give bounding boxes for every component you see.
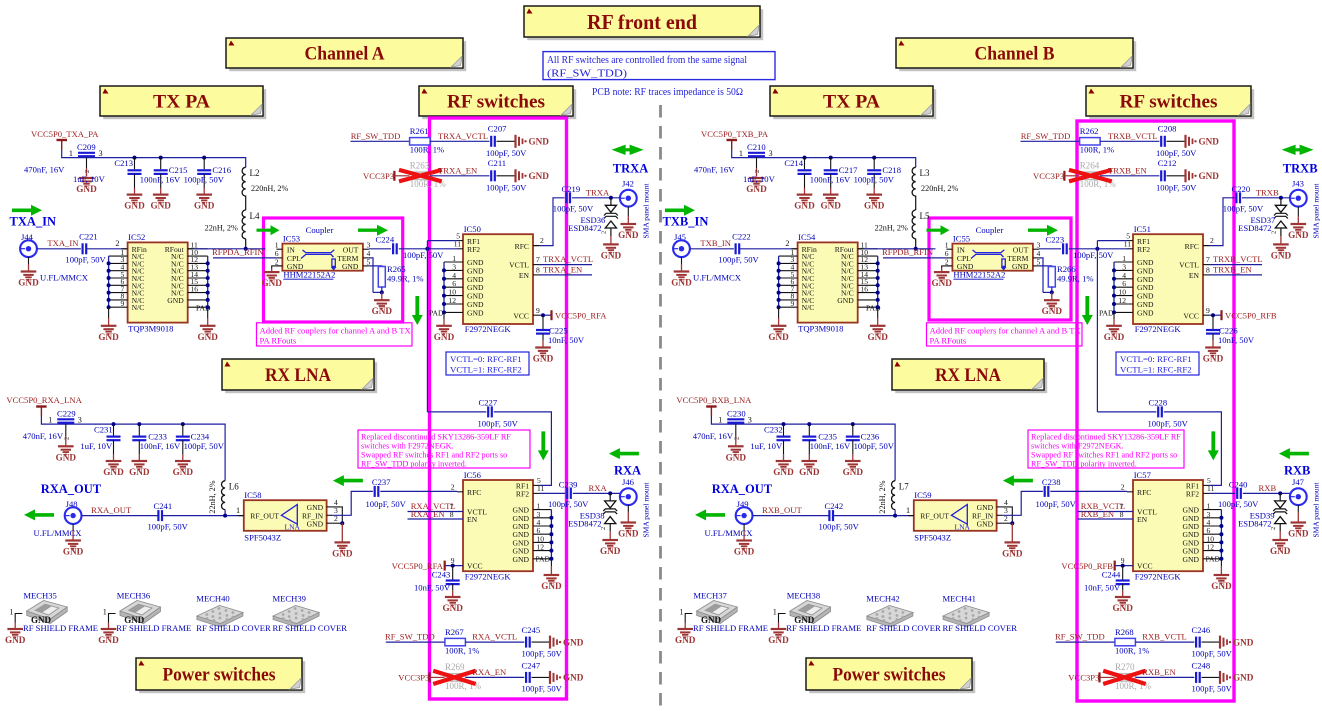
svg-text:12: 12 xyxy=(537,543,545,552)
mech shield frame MECH35 xyxy=(9,591,98,633)
svg-text:IC54: IC54 xyxy=(798,232,816,242)
dashed channel divider xyxy=(659,105,662,711)
inductor L4 xyxy=(205,210,260,239)
wire xyxy=(86,239,127,249)
svg-text:GND: GND xyxy=(533,354,554,364)
ground (sideways) xyxy=(516,135,550,148)
svg-text:GND: GND xyxy=(671,278,692,288)
wire xyxy=(1003,507,1015,542)
label TXA_IN xyxy=(10,215,57,229)
note Channel A xyxy=(226,38,466,71)
svg-text:2: 2 xyxy=(84,170,91,173)
svg-text:RFPDB_RFIN: RFPDB_RFIN xyxy=(882,247,934,257)
IC IC50 F2972NEGK xyxy=(429,224,544,334)
svg-text:RX LNA: RX LNA xyxy=(265,365,331,386)
capacitor C232 xyxy=(750,422,790,461)
capacitor C235 xyxy=(802,422,851,461)
svg-text:C227: C227 xyxy=(479,397,498,407)
wire RX VCC rail xyxy=(711,416,895,481)
net label TRXA_EN xyxy=(539,265,592,275)
svg-text:C246: C246 xyxy=(1192,625,1211,635)
power VCC3P3 xyxy=(363,171,410,181)
capacitor C237 xyxy=(366,477,407,509)
svg-text:J42: J42 xyxy=(622,179,634,189)
svg-text:VCC5P0_RFA: VCC5P0_RFA xyxy=(555,310,607,320)
magenta note: added RF couplers xyxy=(257,323,413,346)
svg-text:2: 2 xyxy=(1210,236,1214,245)
svg-text:ESD8472: ESD8472 xyxy=(1238,519,1271,529)
note Channel B xyxy=(896,38,1136,71)
svg-text:GND: GND xyxy=(98,635,119,645)
label RXB xyxy=(1284,464,1310,478)
svg-text:IC58: IC58 xyxy=(244,490,261,500)
capacitor C247 xyxy=(522,661,563,694)
svg-text:ESD8472: ESD8472 xyxy=(1238,223,1271,233)
coupler region box xyxy=(929,218,1071,320)
svg-text:RF_OUT: RF_OUT xyxy=(920,511,949,520)
wire xyxy=(37,248,81,250)
svg-text:GND: GND xyxy=(98,332,119,342)
svg-text:C229: C229 xyxy=(57,409,76,419)
net label RXB_VCTL xyxy=(1135,632,1194,643)
ground xyxy=(194,195,215,211)
power VCC5P0_RXB_LNA xyxy=(676,395,752,416)
svg-text:GND: GND xyxy=(513,555,530,564)
svg-text:100pF, 50V: 100pF, 50V xyxy=(854,175,895,185)
svg-text:RFC: RFC xyxy=(1185,242,1199,251)
label TRXB xyxy=(1283,162,1318,176)
net label RXB_EN xyxy=(1081,509,1115,519)
net label TRXA_VCTL xyxy=(430,131,489,142)
svg-text:U.FL/MMCX: U.FL/MMCX xyxy=(40,272,89,282)
svg-text:GND: GND xyxy=(261,278,282,288)
ground xyxy=(1002,542,1023,558)
connector J42 xyxy=(620,179,637,207)
svg-text:GND: GND xyxy=(799,467,820,477)
svg-text:GND: GND xyxy=(467,308,484,317)
capacitor C207 xyxy=(486,124,527,158)
svg-text:C237: C237 xyxy=(372,477,391,487)
label TRXA xyxy=(613,162,648,176)
svg-text:RF SHIELD COVER: RF SHIELD COVER xyxy=(196,623,271,633)
svg-text:GND: GND xyxy=(726,452,747,462)
svg-text:ESD8472: ESD8472 xyxy=(568,519,601,529)
wire RF_IN xyxy=(1003,491,1043,515)
svg-text:N/C: N/C xyxy=(132,303,145,312)
svg-text:Swapped RF switches RF1 and RF: Swapped RF switches RF1 and RF2 ports so xyxy=(361,451,507,460)
svg-text:GND: GND xyxy=(1288,529,1309,539)
net label TXB_IN xyxy=(700,238,731,248)
N/C bus right xyxy=(876,256,880,326)
net label RFPDA_RFIN xyxy=(212,247,276,258)
power VCC5P0_TXA_PA xyxy=(31,129,99,150)
capacitor C239 xyxy=(539,479,621,509)
svg-text:U.FL/MMCX: U.FL/MMCX xyxy=(705,528,754,538)
wire xyxy=(162,506,243,517)
ground xyxy=(434,326,455,342)
svg-text:RFC: RFC xyxy=(515,242,529,251)
svg-text:1: 1 xyxy=(48,415,52,424)
inductor L5 xyxy=(875,210,930,239)
ground xyxy=(675,629,696,645)
svg-text:GND: GND xyxy=(1002,548,1023,558)
ground xyxy=(618,207,639,240)
net label TRXA_VCTL xyxy=(539,254,593,264)
svg-text:EN: EN xyxy=(1189,271,1200,280)
GND bus xyxy=(1219,510,1223,575)
svg-text:R270: R270 xyxy=(1115,662,1135,672)
net label TRXB_VCTL xyxy=(1209,254,1263,264)
PCB note text xyxy=(592,86,743,98)
svg-text:GND: GND xyxy=(103,467,124,477)
svg-text:1: 1 xyxy=(906,506,910,515)
ground (sideways) xyxy=(1220,636,1254,649)
svg-text:100pF, 50V: 100pF, 50V xyxy=(1156,183,1197,193)
resistor R267 xyxy=(445,627,479,655)
svg-text:GND: GND xyxy=(600,546,621,556)
capacitor C244 xyxy=(1084,566,1130,597)
svg-text:IC57: IC57 xyxy=(1134,470,1152,480)
svg-text:R261: R261 xyxy=(410,126,429,136)
power VCC3P3 xyxy=(398,672,445,682)
svg-text:C216: C216 xyxy=(212,165,231,175)
ground xyxy=(601,244,622,260)
svg-text:GND: GND xyxy=(867,332,888,342)
svg-text:GND: GND xyxy=(1112,603,1133,613)
svg-text:16: 16 xyxy=(861,284,869,293)
svg-text:2: 2 xyxy=(451,482,455,491)
svg-text:Power switches: Power switches xyxy=(163,665,276,686)
svg-text:7: 7 xyxy=(536,255,540,264)
capacitor C216 xyxy=(184,156,232,195)
green arrow TXA_IN xyxy=(12,205,42,216)
svg-text:GND: GND xyxy=(76,184,97,194)
svg-text:9: 9 xyxy=(791,299,795,308)
svg-text:switches with F2972NEGK.: switches with F2972NEGK. xyxy=(1031,442,1124,451)
svg-text:R262: R262 xyxy=(1080,126,1099,136)
wire RF1/RF2 xyxy=(425,241,457,412)
svg-text:GND: GND xyxy=(150,201,171,211)
svg-text:GND: GND xyxy=(1233,637,1254,647)
IC IC52 TQP3M9018 xyxy=(109,232,211,333)
green arrow xyxy=(1028,225,1058,236)
svg-text:100pF, 50V: 100pF, 50V xyxy=(1223,204,1264,214)
svg-text:MECH41: MECH41 xyxy=(943,593,976,603)
svg-text:100pF, 50V: 100pF, 50V xyxy=(65,255,106,265)
ground xyxy=(705,524,755,557)
note RF switches xyxy=(419,86,576,119)
svg-text:7: 7 xyxy=(1206,255,1210,264)
svg-text:F2972NEGK: F2972NEGK xyxy=(465,324,512,334)
wire xyxy=(833,506,913,517)
svg-text:R264: R264 xyxy=(1080,161,1100,171)
svg-text:RXA_OUT: RXA_OUT xyxy=(41,482,102,496)
ground xyxy=(1203,348,1224,364)
svg-text:TX PA: TX PA xyxy=(823,92,880,113)
svg-text:9: 9 xyxy=(536,306,540,315)
ground (sideways) xyxy=(1186,169,1220,182)
svg-text:VCTL=1: RFC-RF2: VCTL=1: RFC-RF2 xyxy=(1120,365,1192,375)
svg-text:2: 2 xyxy=(785,239,789,248)
power VCC3P3 xyxy=(1033,171,1080,181)
note RX LNA xyxy=(222,359,377,393)
svg-text:GND: GND xyxy=(1137,308,1154,317)
svg-text:TRXB_VCTL: TRXB_VCTL xyxy=(1108,131,1158,141)
inductor L3 xyxy=(912,167,958,196)
svg-text:C238: C238 xyxy=(1042,477,1061,487)
svg-text:GND: GND xyxy=(18,278,39,288)
label SMA panel mount xyxy=(642,482,651,538)
wire TX VCC rail xyxy=(732,150,916,249)
note TX PA xyxy=(100,86,266,119)
ground xyxy=(1288,207,1309,240)
svg-text:RXA_OUT: RXA_OUT xyxy=(91,505,132,515)
svg-text:10nF, 50V: 10nF, 50V xyxy=(1084,583,1121,593)
svg-text:RF2: RF2 xyxy=(516,490,529,499)
blue note: VCTL truth table xyxy=(1116,352,1199,375)
svg-text:3: 3 xyxy=(78,415,82,424)
svg-text:GND: GND xyxy=(864,201,885,211)
resistor R265 xyxy=(369,258,424,300)
connector J44 xyxy=(20,232,37,257)
net label TXA_IN xyxy=(47,238,79,248)
svg-text:100pF, 50V: 100pF, 50V xyxy=(553,204,594,214)
ground xyxy=(768,326,789,342)
ground xyxy=(1112,597,1133,613)
wire RFC xyxy=(533,198,564,246)
svg-text:VCTL: VCTL xyxy=(509,261,529,270)
svg-text:GND: GND xyxy=(618,230,639,240)
capacitor C210 (feedthrough) xyxy=(694,142,773,176)
svg-text:100pF, 50V: 100pF, 50V xyxy=(1218,499,1259,509)
mech shield cover MECH40 xyxy=(196,593,271,632)
svg-text:C225: C225 xyxy=(549,325,568,335)
svg-text:C231: C231 xyxy=(94,425,113,435)
connector J49 xyxy=(736,499,753,524)
resistor R261 xyxy=(410,126,445,155)
capacitor C219 xyxy=(553,184,594,213)
svg-text:8: 8 xyxy=(536,266,540,275)
net label TRXB_EN xyxy=(1209,265,1262,275)
svg-text:1: 1 xyxy=(275,240,279,249)
svg-text:Coupler: Coupler xyxy=(976,225,1004,235)
N/C bus left xyxy=(777,256,781,326)
capacitor C228 xyxy=(1097,397,1221,485)
svg-text:GND: GND xyxy=(167,296,184,305)
svg-text:VCC3P3: VCC3P3 xyxy=(363,171,394,181)
svg-text:9: 9 xyxy=(1206,306,1210,315)
svg-text:C211: C211 xyxy=(488,158,506,168)
capacitor C212 xyxy=(1156,158,1197,192)
wire RX VCC rail xyxy=(41,416,225,481)
wire xyxy=(942,266,953,272)
RF switches region box xyxy=(1077,121,1234,701)
svg-text:10nF, 50V: 10nF, 50V xyxy=(1218,335,1255,345)
svg-text:100nF, 16V: 100nF, 16V xyxy=(810,441,851,451)
RF switches region box xyxy=(430,118,567,699)
svg-text:IC50: IC50 xyxy=(464,224,481,234)
svg-text:GND: GND xyxy=(307,519,324,528)
svg-text:VCC: VCC xyxy=(467,562,483,571)
N/C bus right xyxy=(206,256,210,326)
svg-text:GND: GND xyxy=(1183,555,1200,564)
wire RF_IN xyxy=(333,491,373,515)
svg-text:5: 5 xyxy=(367,257,371,266)
power VCC5P0_RFA xyxy=(392,561,463,571)
svg-text:TRXB_VCTL: TRXB_VCTL xyxy=(1213,254,1263,264)
svg-text:100pF, 50V: 100pF, 50V xyxy=(366,499,407,509)
svg-text:LNA: LNA xyxy=(955,523,971,532)
red X (not fitted) xyxy=(433,671,476,684)
net label RF_SW_TDD xyxy=(385,632,445,643)
svg-text:TX PA: TX PA xyxy=(153,92,210,113)
svg-text:100pF, 50V: 100pF, 50V xyxy=(403,250,444,260)
svg-text:2: 2 xyxy=(115,239,119,248)
inductor L2 xyxy=(242,167,288,196)
capacitor C246 xyxy=(1192,625,1233,658)
svg-text:MECH40: MECH40 xyxy=(196,593,229,603)
svg-text:C212: C212 xyxy=(1158,158,1177,168)
net label RF_SW_TDD xyxy=(1055,632,1115,643)
svg-text:GND: GND xyxy=(675,635,696,645)
svg-text:100R, 1%: 100R, 1% xyxy=(445,646,479,656)
net label RXB_OUT xyxy=(762,505,802,515)
capacitor C208 xyxy=(1156,124,1197,158)
ground xyxy=(541,575,562,591)
svg-text:1uF, 10V: 1uF, 10V xyxy=(743,174,776,184)
capacitor C221 xyxy=(65,232,106,265)
svg-text:GND: GND xyxy=(843,467,864,477)
label RXA xyxy=(614,464,641,478)
ground xyxy=(768,629,789,645)
svg-text:VCTL=0: RFC-RF1: VCTL=0: RFC-RF1 xyxy=(450,354,522,364)
svg-text:GND: GND xyxy=(124,201,145,211)
svg-text:SMA panel mount: SMA panel mount xyxy=(642,183,651,239)
power VCC5P0_RXA_LNA xyxy=(6,395,82,416)
svg-text:100pF, 50V: 100pF, 50V xyxy=(486,183,527,193)
capacitor C231 xyxy=(80,422,120,461)
connector J47 xyxy=(1290,477,1307,505)
mech shield cover MECH41 xyxy=(943,593,1018,632)
ground xyxy=(18,257,88,287)
ground xyxy=(671,257,741,287)
svg-text:MECH39: MECH39 xyxy=(273,593,306,603)
mech shield cover MECH42 xyxy=(866,593,941,632)
svg-text:3: 3 xyxy=(99,149,103,158)
net label TRXB_EN xyxy=(1100,165,1159,175)
svg-text:12: 12 xyxy=(1207,543,1215,552)
svg-text:C219: C219 xyxy=(562,184,581,194)
svg-text:1: 1 xyxy=(718,415,722,424)
N/C bus left xyxy=(107,256,111,326)
capacitor C227 xyxy=(427,397,551,485)
capacitor C245 xyxy=(522,625,563,658)
svg-text:C244: C244 xyxy=(1102,569,1121,579)
svg-text:RF SHIELD FRAME: RF SHIELD FRAME xyxy=(116,623,191,633)
svg-text:L5: L5 xyxy=(920,211,930,221)
svg-text:IC55: IC55 xyxy=(953,234,970,244)
net label RXA_VCTL xyxy=(465,632,524,643)
svg-text:22nH, 2%: 22nH, 2% xyxy=(875,223,908,232)
net label RF_SW_TDD xyxy=(1021,131,1080,142)
svg-text:GND: GND xyxy=(837,296,854,305)
capacitor C211 xyxy=(486,158,527,192)
svg-text:GND: GND xyxy=(734,547,755,557)
svg-text:220nH, 2%: 220nH, 2% xyxy=(921,184,958,193)
svg-text:VCC: VCC xyxy=(1183,311,1199,320)
svg-text:RFPDA_RFIN: RFPDA_RFIN xyxy=(212,247,264,257)
svg-text:GND: GND xyxy=(1199,171,1220,181)
svg-text:GND: GND xyxy=(129,467,150,477)
red X (not fitted) xyxy=(399,170,442,182)
wire xyxy=(753,515,830,517)
svg-text:GND: GND xyxy=(442,603,463,613)
svg-text:GND: GND xyxy=(794,201,815,211)
svg-text:Channel B: Channel B xyxy=(975,44,1055,65)
svg-text:GND: GND xyxy=(746,184,767,194)
IC IC54 TQP3M9018 xyxy=(779,232,881,333)
ground xyxy=(1270,540,1291,556)
power VCC3P3 xyxy=(1068,672,1115,682)
svg-text:PAD: PAD xyxy=(536,555,551,564)
mech shield frame MECH36 xyxy=(103,591,192,633)
label Coupler xyxy=(976,225,1004,235)
svg-text:GND: GND xyxy=(63,547,84,557)
coupler IC IC55 HHM22152A2 xyxy=(945,234,1041,280)
svg-text:TRXA_EN: TRXA_EN xyxy=(543,265,583,275)
connector J48 xyxy=(65,499,82,524)
net label RF_SW_TDD xyxy=(351,131,410,142)
wire xyxy=(82,515,159,517)
svg-text:3: 3 xyxy=(769,149,773,158)
green arrow down xyxy=(1208,431,1219,460)
svg-text:RXB: RXB xyxy=(1284,464,1310,478)
svg-text:1: 1 xyxy=(739,149,743,158)
svg-text:11: 11 xyxy=(1207,484,1215,493)
svg-text:2: 2 xyxy=(733,437,740,440)
svg-text:VCC3P3: VCC3P3 xyxy=(1033,171,1064,181)
net label TRXA xyxy=(586,187,610,197)
net label RFPDB_RFIN xyxy=(882,247,946,258)
svg-text:GND: GND xyxy=(563,673,584,683)
svg-text:C218: C218 xyxy=(882,165,901,175)
svg-text:RF SHIELD COVER: RF SHIELD COVER xyxy=(866,623,941,633)
svg-text:RF_SW_TDD polarity inverted.: RF_SW_TDD polarity inverted. xyxy=(1031,460,1137,469)
ground xyxy=(261,272,282,288)
green arrow TXB_IN xyxy=(665,205,695,216)
capacitor C243 xyxy=(414,566,460,597)
svg-text:GND: GND xyxy=(173,467,194,477)
svg-text:GND: GND xyxy=(372,306,393,316)
svg-text:Added RF couplers for channel: Added RF couplers for channel A and B TX xyxy=(930,325,1082,335)
svg-text:GND: GND xyxy=(1042,306,1063,316)
svg-text:100pF, 50V: 100pF, 50V xyxy=(1192,684,1233,694)
svg-text:100pF, 50V: 100pF, 50V xyxy=(548,499,589,509)
svg-text:100pF, 50V: 100pF, 50V xyxy=(1148,419,1189,429)
ground xyxy=(794,195,815,211)
wire xyxy=(333,507,345,542)
magenta note: replaced switches xyxy=(1028,430,1184,469)
svg-text:100pF, 50V: 100pF, 50V xyxy=(522,648,563,658)
connector J45 xyxy=(673,232,690,257)
svg-text:TRXB_EN: TRXB_EN xyxy=(1213,265,1252,275)
svg-text:PCB note: RF traces impedance: PCB note: RF traces impedance is 50Ω xyxy=(592,86,743,98)
svg-text:100nF, 16V: 100nF, 16V xyxy=(140,175,181,185)
svg-text:Coupler: Coupler xyxy=(306,225,334,235)
ground xyxy=(618,505,639,538)
svg-text:C228: C228 xyxy=(1149,397,1168,407)
svg-text:C222: C222 xyxy=(732,232,751,242)
